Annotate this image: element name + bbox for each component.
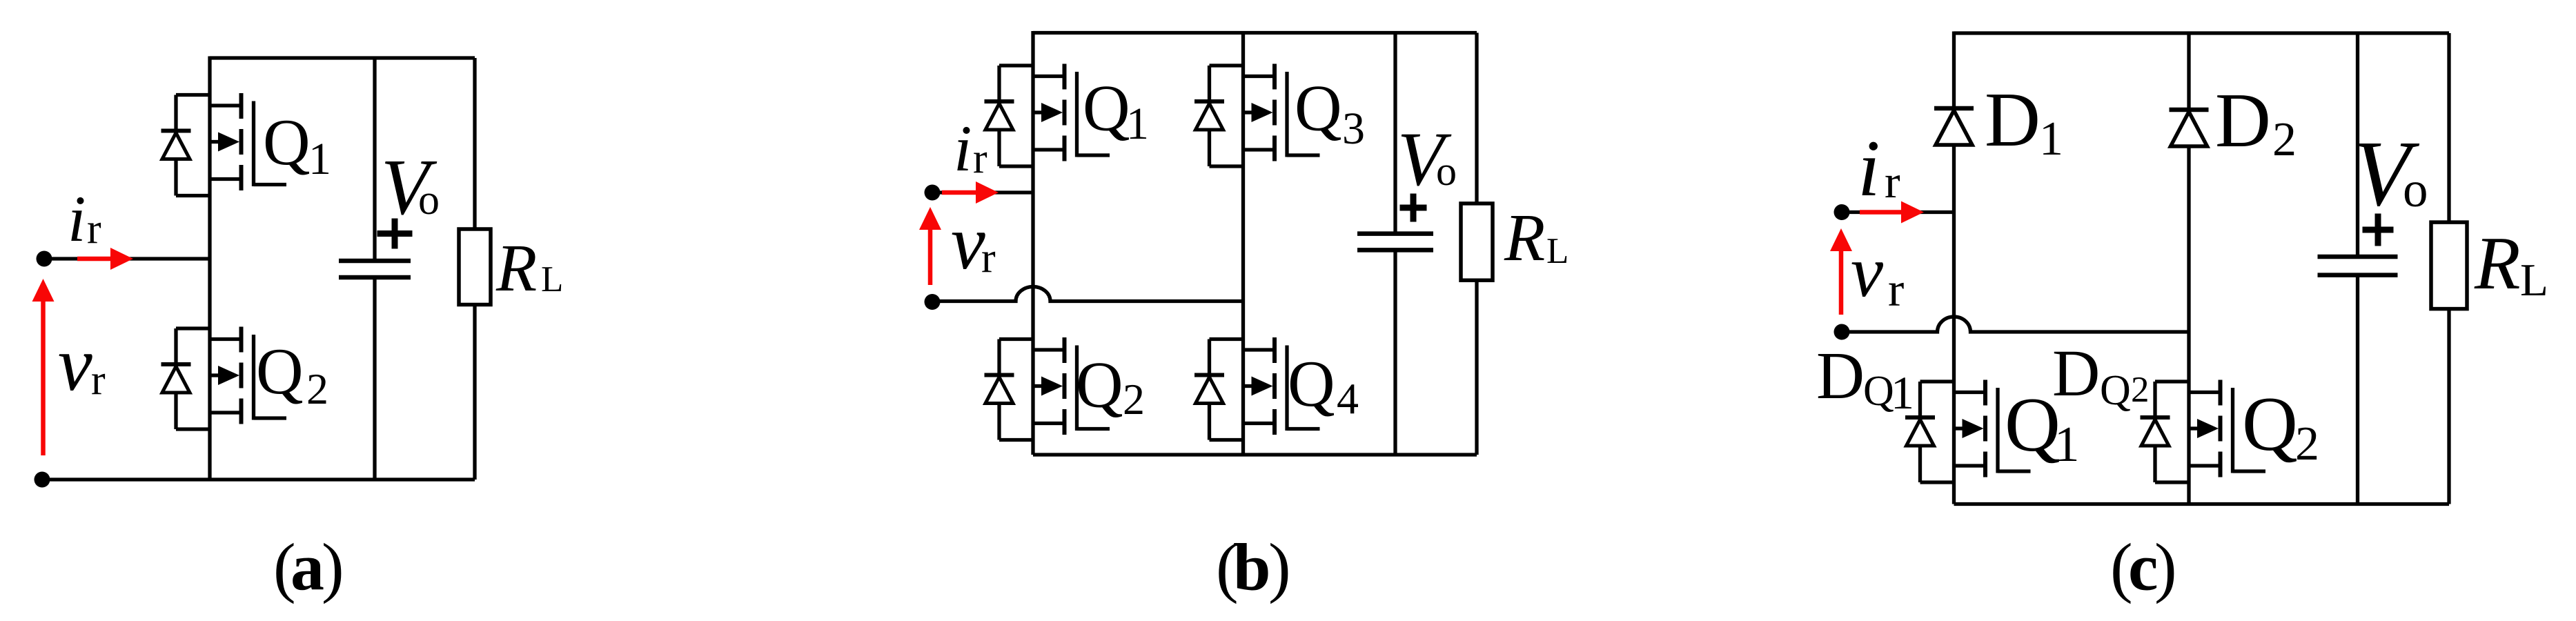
transistor Q2 (c) — [2189, 380, 2265, 477]
label Q3 (b) — [1295, 72, 1365, 155]
polarity + of Vo (a) — [377, 219, 413, 249]
transistor Q2 (b) — [1033, 337, 1110, 435]
svg-text:v: v — [58, 322, 92, 407]
label D2 — [2215, 78, 2297, 166]
capacitor Co (a) — [339, 261, 411, 277]
svg-text:Q: Q — [2242, 382, 2298, 467]
svg-text:c: c — [2128, 531, 2159, 605]
node (b) input - — [925, 294, 941, 310]
wire (c) capacitor bottom lead — [2356, 275, 2359, 504]
label Vo (a) — [381, 144, 440, 231]
label caption (c) — [2110, 531, 2177, 605]
body diode of Q4 (b) — [1194, 339, 1243, 440]
wire (b) capacitor top lead — [1393, 33, 1397, 234]
svg-text:R: R — [1504, 201, 1545, 275]
svg-text:1: 1 — [1891, 366, 1914, 419]
transistor Q1 (c) — [1954, 380, 2031, 477]
wire (a) top rail — [210, 56, 475, 59]
svg-text:D: D — [1985, 77, 2041, 163]
wire (a) capacitor bottom lead — [373, 277, 376, 480]
node (b) input + — [925, 185, 941, 201]
wire (a) load bottom lead — [473, 305, 476, 480]
wire (c) load top lead — [2447, 33, 2450, 222]
wire (c) input line - (hop over crossing) — [1842, 317, 2189, 332]
diode D2 — [2170, 110, 2209, 146]
label RL (a) — [495, 231, 563, 305]
wire (a) capacitor top lead — [373, 58, 376, 261]
svg-text:Q: Q — [1076, 348, 1123, 422]
transistor Q2 (a) — [210, 327, 286, 424]
label Vo (c) — [2353, 122, 2428, 226]
wire (b) load bottom lead — [1475, 280, 1478, 455]
node (c) input - — [1834, 324, 1850, 340]
transistor Q4 (b) — [1243, 337, 1320, 435]
svg-text:2: 2 — [2272, 113, 2297, 166]
svg-text:Q: Q — [2100, 367, 2131, 414]
wire (c) top rail — [1954, 31, 2450, 34]
svg-text:Q: Q — [1863, 368, 1894, 415]
polarity + of Vo (b) — [1400, 194, 1427, 222]
body diode of Q3 (b) — [1194, 66, 1243, 166]
svg-text:L: L — [1546, 231, 1569, 271]
label Vo (b) — [1397, 117, 1457, 202]
svg-text:3: 3 — [1342, 103, 1365, 154]
capacitor Co (c) — [2318, 257, 2398, 275]
svg-text:R: R — [2474, 221, 2521, 305]
svg-text:Q: Q — [263, 106, 311, 179]
body diode of Q2 (a) — [161, 328, 210, 429]
current arrow ir (c) — [1860, 201, 1924, 224]
label D1 — [1985, 77, 2063, 166]
svg-text:2: 2 — [2295, 417, 2319, 471]
svg-text:2: 2 — [1123, 375, 1145, 424]
node (c) input + — [1834, 204, 1850, 220]
label Q2 (c) — [2242, 382, 2319, 471]
wire (a) input line — [44, 257, 210, 260]
svg-text:i: i — [954, 112, 972, 185]
wire (b) bottom rail — [1033, 453, 1477, 456]
label DQ1 — [1816, 339, 1914, 419]
label caption (a) — [273, 531, 344, 605]
wire (b) right bridge leg — [1241, 31, 1245, 455]
body diode of Q1 (c) — [1905, 382, 1954, 482]
svg-text:): ) — [2154, 531, 2177, 605]
resistor RL (a) — [459, 229, 491, 305]
svg-text:4: 4 — [1337, 374, 1359, 423]
svg-text:Q: Q — [1083, 72, 1130, 145]
svg-text:1: 1 — [308, 134, 331, 184]
svg-text:D: D — [2215, 78, 2271, 164]
transistor Q1 (b) — [1033, 64, 1110, 161]
svg-text:v: v — [951, 200, 985, 286]
label caption (b) — [1216, 531, 1291, 605]
capacitor Co (b) — [1357, 234, 1433, 250]
svg-text:a: a — [291, 531, 324, 605]
label RL (b) — [1504, 201, 1569, 275]
transistor Q1 (a) — [210, 93, 286, 190]
svg-text:): ) — [1268, 531, 1291, 605]
label Q1 (b) — [1083, 72, 1149, 150]
svg-text:1: 1 — [2054, 416, 2080, 472]
wire (a) bottom rail — [44, 477, 475, 481]
svg-text:i: i — [1858, 124, 1880, 213]
svg-text:v: v — [1851, 231, 1884, 312]
wire (b) top rail — [1033, 31, 1477, 34]
wire (c) middle leg — [2187, 32, 2190, 504]
label ir (b) — [954, 112, 987, 185]
wire (c) capacitor top lead — [2356, 33, 2359, 257]
svg-text:D: D — [1816, 339, 1865, 413]
resistor RL (c) — [2431, 222, 2467, 309]
current arrow ir (a) — [77, 248, 133, 270]
wire (a) load top lead — [473, 58, 476, 229]
body diode of Q2 (b) — [985, 339, 1034, 440]
svg-text:R: R — [495, 231, 537, 305]
label Q1 (c) — [2005, 382, 2080, 472]
svg-text:2: 2 — [306, 364, 328, 413]
svg-text:r: r — [1885, 155, 1900, 208]
label vr (a) — [58, 322, 106, 407]
label Q4 (b) — [1288, 347, 1359, 423]
label DQ2 — [2052, 336, 2150, 414]
polarity + of Vo (c) — [2363, 214, 2394, 246]
svg-text:r: r — [1888, 264, 1904, 317]
wire (c) bottom rail — [1954, 502, 2450, 506]
voltage arrow vr (a) — [32, 279, 55, 455]
label ir (a) — [68, 182, 101, 255]
wire (b) capacitor bottom lead — [1393, 250, 1397, 455]
svg-text:r: r — [981, 235, 996, 282]
svg-text:Q: Q — [1295, 72, 1342, 145]
label ir (c) — [1858, 124, 1900, 213]
label RL (c) — [2474, 221, 2548, 306]
svg-text:): ) — [322, 531, 344, 605]
wire (c) input line + — [1842, 210, 1954, 214]
voltage arrow vr (c) — [1830, 228, 1852, 315]
label vr (c) — [1851, 231, 1904, 317]
wire (c) load bottom lead — [2447, 309, 2450, 504]
label Q2 (b) — [1076, 348, 1145, 424]
svg-text:1: 1 — [2039, 112, 2063, 166]
wire (b) load top lead — [1475, 33, 1478, 204]
resistor RL (b) — [1461, 204, 1493, 280]
wire (c) left leg — [1952, 32, 1956, 504]
svg-text:Q: Q — [256, 335, 304, 408]
svg-text:o: o — [2403, 161, 2428, 217]
label Q2 (a) — [256, 335, 328, 413]
body diode of Q1 (b) — [985, 66, 1034, 166]
body diode of Q1 (a) — [161, 95, 210, 196]
label vr (b) — [951, 200, 996, 286]
diode D1 — [1934, 108, 1974, 145]
transistor Q3 (b) — [1243, 64, 1320, 161]
body diode of Q2 (c) — [2141, 382, 2190, 482]
node (a) input + — [37, 251, 52, 267]
svg-text:r: r — [87, 206, 101, 253]
svg-text:D: D — [2052, 336, 2100, 410]
svg-text:o: o — [418, 177, 440, 224]
wire (a) half-bridge bus — [208, 57, 211, 480]
current arrow ir (b) — [942, 181, 999, 204]
label Q1 (a) — [263, 106, 331, 184]
svg-text:L: L — [2520, 255, 2548, 306]
wire (b) input line + — [932, 190, 1033, 194]
svg-text:2: 2 — [2131, 370, 2150, 410]
svg-text:Q: Q — [1288, 347, 1335, 420]
svg-text:r: r — [973, 135, 987, 182]
voltage arrow vr (b) — [919, 207, 941, 285]
node (a) input - — [35, 472, 50, 488]
svg-text:b: b — [1233, 531, 1271, 605]
wire (b) input line - (hop over crossing) — [932, 287, 1243, 302]
svg-text:L: L — [541, 259, 563, 299]
svg-text:i: i — [68, 182, 86, 255]
svg-text:1: 1 — [1126, 99, 1149, 149]
wire (b) left bridge leg — [1031, 31, 1034, 455]
svg-text:o: o — [1436, 148, 1457, 194]
svg-text:r: r — [91, 357, 106, 404]
